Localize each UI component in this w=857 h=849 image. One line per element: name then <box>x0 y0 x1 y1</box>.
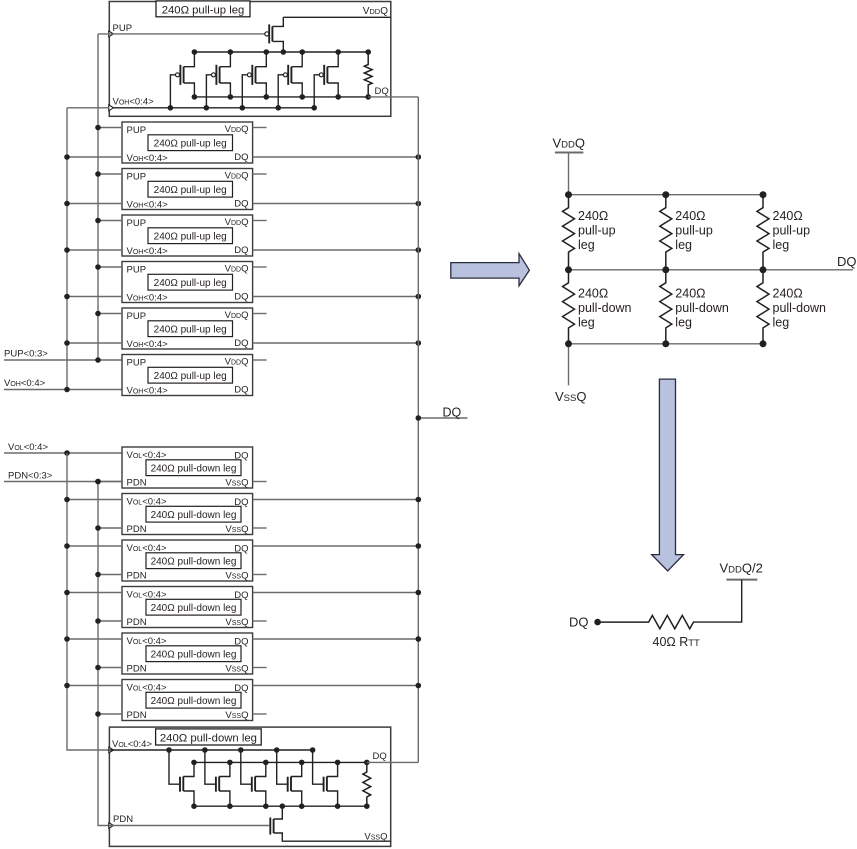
wire VSSQ stub U_PD5 <box>253 667 267 669</box>
resistor R_dn1 240 ohm pull-down leg <box>563 270 575 344</box>
svg-text:PUP: PUP <box>127 125 147 136</box>
wire PDN<0:3> input <box>4 481 122 483</box>
svg-text:VOL<0:4>: VOL<0:4> <box>127 450 167 461</box>
transistor MN1 NMOS leg <box>166 747 197 809</box>
block U_PD0 240-ohm pull-down leg (detail) outline <box>109 727 390 846</box>
value label R_dn3 <box>773 287 827 330</box>
wire DQ line U_PU5 <box>253 342 419 344</box>
svg-text:pull-up: pull-up <box>773 224 811 238</box>
svg-text:240Ω pull-down leg: 240Ω pull-down leg <box>151 464 237 475</box>
junction DQ rail col 1 <box>565 266 572 273</box>
junction DQ output <box>416 415 422 421</box>
wire VOL stub U_PD6 <box>67 685 122 687</box>
junction PDN bus U_PD1 <box>95 479 101 485</box>
block U_PU6 240-ohm pull-up leg <box>122 355 253 397</box>
wire source rail of U_PD0 <box>194 805 367 807</box>
pin VOL of U_PD0 <box>109 739 153 753</box>
svg-text:DQ: DQ <box>234 198 248 209</box>
block U_PD6 240-ohm pull-down leg <box>122 680 253 722</box>
transistor MP5 PMOS leg <box>311 49 341 110</box>
junction VDDQ rail col 2 <box>662 191 669 198</box>
junction DQ bus U_PD4 <box>416 590 422 596</box>
svg-text:240Ω: 240Ω <box>675 287 705 301</box>
junction VSSQ rail col 1 <box>565 340 572 347</box>
svg-text:DQ: DQ <box>443 406 462 420</box>
wire DQ exit of U_PU0 <box>368 96 418 98</box>
wire VOL stub U_PD5 <box>67 638 122 640</box>
svg-text:VOL<0:4>: VOL<0:4> <box>127 590 167 601</box>
wire DQ line U_PD6 <box>253 685 419 687</box>
wire VOL bus vertical <box>67 453 109 750</box>
svg-text:PDN: PDN <box>127 571 147 582</box>
junction PDN bus U_PD4 <box>95 618 101 624</box>
wire VOL stub U_PD4 <box>67 592 122 594</box>
svg-text:leg: leg <box>578 316 595 330</box>
wire VOH stub U_PU1 <box>67 156 122 158</box>
wire DQ line U_PD3 <box>253 545 419 547</box>
svg-text:40Ω RTT: 40Ω RTT <box>653 635 701 649</box>
junction PUP bus U_PU1 <box>95 125 101 131</box>
svg-text:DQ: DQ <box>234 291 248 302</box>
wire VSSQ stub U_PD6 <box>253 713 267 715</box>
wire PDN stub U_PD2 <box>98 527 122 529</box>
junction DQ bus U_PD2 <box>416 497 422 503</box>
svg-text:PUP: PUP <box>127 172 147 183</box>
svg-text:DQ: DQ <box>234 497 248 508</box>
wire DQ line U_PU2 <box>253 203 419 205</box>
svg-text:DQ: DQ <box>234 544 248 555</box>
block U_PD4 240-ohm pull-down leg <box>122 587 253 629</box>
wire DQ exit of U_PD0 <box>367 761 419 763</box>
block U_PD5 240-ohm pull-down leg <box>122 633 253 675</box>
power symbol VDDQ/2 <box>720 561 763 580</box>
svg-text:leg: leg <box>773 316 790 330</box>
transistor MN2 NMOS leg <box>202 747 233 809</box>
wire VSSQ stub U_PD4 <box>253 620 267 622</box>
resistor R_dn3 240 ohm pull-down leg <box>757 270 769 344</box>
junction DQ bus U_PD3 <box>416 543 422 549</box>
wire DQ line U_PU4 <box>253 296 419 298</box>
svg-text:240Ω pull-down leg: 240Ω pull-down leg <box>151 696 237 707</box>
wire PUP stub U_PU5 <box>98 313 122 315</box>
junction VSSQ rail col 3 <box>760 340 767 347</box>
svg-text:PUP: PUP <box>113 23 133 34</box>
pin PDN of U_PD0 <box>109 814 133 828</box>
wire DQ rail <box>569 269 854 271</box>
junction PUP bus U_PU2 <box>95 171 101 177</box>
wire VDDQ stub U_PU4 <box>253 266 267 268</box>
resistor R_up1 240 ohm pull-up leg <box>563 195 575 270</box>
junction VOH bus U_PU4 <box>64 294 70 300</box>
svg-text:PDN: PDN <box>113 814 133 825</box>
svg-text:DQ: DQ <box>234 590 248 601</box>
svg-text:PUP: PUP <box>127 265 147 276</box>
wire PUP bus vertical <box>97 34 99 360</box>
junction VOL bus U_PD6 <box>64 683 70 689</box>
junction VOL bus U_PD5 <box>64 636 70 642</box>
wire PDN stub U_PD1 <box>98 481 122 483</box>
junction DQ bus U_PU4 <box>416 294 422 300</box>
wire VOL gate rail of U_PD0 <box>109 749 312 751</box>
transistor MN4 NMOS leg <box>274 747 305 809</box>
svg-text:PUP: PUP <box>127 218 147 229</box>
svg-text:VDDQ/2: VDDQ/2 <box>720 561 763 576</box>
junction DQ bus U_PU5 <box>416 340 422 346</box>
svg-text:240Ω pull-up leg: 240Ω pull-up leg <box>154 139 227 150</box>
svg-text:PDN: PDN <box>127 617 147 628</box>
svg-text:VOL<0:4>: VOL<0:4> <box>127 636 167 647</box>
power symbol VDDQ <box>553 136 586 195</box>
svg-text:DQ: DQ <box>234 451 248 462</box>
value label R_up2 <box>675 209 713 252</box>
block U_PU0 240-ohm pull-up leg (detail) outline <box>109 2 391 117</box>
svg-text:240Ω pull-up leg: 240Ω pull-up leg <box>154 325 227 336</box>
svg-text:VOH<0:4>: VOH<0:4> <box>113 96 155 107</box>
value label R_up3 <box>773 209 811 252</box>
value label R_dn1 <box>578 287 632 330</box>
block U_PD1 240-ohm pull-down leg <box>122 447 253 489</box>
wire drain rail (DQ) of U_PU0 <box>194 96 368 98</box>
junction DQ bus U_PD6 <box>416 683 422 689</box>
wire VDDQ/2 to resistor <box>694 580 742 623</box>
wire PUP gate line <box>98 33 265 35</box>
junction PDN bus U_PD5 <box>95 665 101 671</box>
svg-text:240Ω pull-down leg: 240Ω pull-down leg <box>151 557 237 568</box>
label box 240-ohm pull-down leg <box>156 729 262 745</box>
junction VDDQ rail col 3 <box>760 191 767 198</box>
junction DQ bus U_PU3 <box>416 247 422 253</box>
block U_PU2 240-ohm pull-up leg <box>122 169 253 211</box>
wire VSSQ rail <box>569 343 764 345</box>
svg-text:VOH<0:4>: VOH<0:4> <box>127 246 169 257</box>
wire VOL stub U_PD2 <box>67 499 122 501</box>
svg-text:240Ω pull-up leg: 240Ω pull-up leg <box>154 185 227 196</box>
wire VSSQ stub U_PD1 <box>253 481 267 483</box>
wire PUP stub U_PU1 <box>98 127 122 129</box>
wire VDDQ stub U_PU6 <box>253 359 267 361</box>
wire PDN stub U_PD5 <box>98 667 122 669</box>
junction DQ bus U_PU2 <box>416 201 422 207</box>
wire DQ line U_PD5 <box>253 638 419 640</box>
svg-text:PUP<0:3>: PUP<0:3> <box>4 349 48 360</box>
wire VDDQ stub U_PU2 <box>253 173 267 175</box>
svg-text:240Ω: 240Ω <box>773 287 803 301</box>
resistor R_up2 240 ohm pull-up leg <box>660 195 672 270</box>
svg-text:240Ω pull-down leg: 240Ω pull-down leg <box>151 650 237 661</box>
wire PDN bus vertical <box>98 482 109 826</box>
svg-text:VOH<0:4>: VOH<0:4> <box>127 339 169 350</box>
svg-text:DQ: DQ <box>234 245 248 256</box>
wire PUP stub U_PU4 <box>98 266 122 268</box>
junction VOL bus U_PD2 <box>64 497 70 503</box>
wire DQ line U_PU1 <box>253 156 419 158</box>
svg-text:DQ: DQ <box>569 615 589 630</box>
junction VDDQ rail col 1 <box>565 191 572 198</box>
wire VDDQ stub U_PU1 <box>253 127 267 129</box>
svg-text:PDN<0:3>: PDN<0:3> <box>8 471 53 482</box>
svg-text:VOL<0:4>: VOL<0:4> <box>127 543 167 554</box>
junction PUP bus U_PU3 <box>95 218 101 224</box>
block U_PU5 240-ohm pull-up leg <box>122 308 253 350</box>
svg-text:leg: leg <box>675 238 692 252</box>
resistor R_PD0 240 ohm <box>363 760 371 809</box>
transistor MP1 PMOS leg <box>168 49 198 110</box>
wire DQ bus vertical <box>417 97 419 763</box>
wire PUP stub U_PU2 <box>98 173 122 175</box>
junction DQ rail col 3 <box>760 266 767 273</box>
junction PDN bus U_PD3 <box>95 572 101 578</box>
svg-text:leg: leg <box>773 238 790 252</box>
junction VOL<0:4> on bus <box>64 450 70 456</box>
wire PDN stub U_PD6 <box>98 713 122 715</box>
junction VOH bus U_PU1 <box>64 154 70 160</box>
wire drain rail (DQ) of U_PD0 <box>194 761 367 763</box>
svg-text:DQ: DQ <box>234 637 248 648</box>
wire VOH bus vertical <box>66 108 68 390</box>
junction VOH bus U_PU5 <box>64 340 70 346</box>
svg-text:leg: leg <box>675 316 692 330</box>
wire PDN gate line <box>109 825 269 827</box>
resistor R_dn2 240 ohm pull-down leg <box>660 270 672 344</box>
svg-text:PUP: PUP <box>127 311 147 322</box>
svg-text:VOL<0:4>: VOL<0:4> <box>127 683 167 694</box>
wire VOH stub U_PU2 <box>67 203 122 205</box>
wire VDDQ stub U_PU3 <box>253 220 267 222</box>
svg-text:240Ω: 240Ω <box>578 209 608 223</box>
wire VDDQ rail <box>569 194 764 196</box>
svg-text:pull-up: pull-up <box>578 224 616 238</box>
svg-text:DQ: DQ <box>234 683 248 694</box>
junction DQ bus U_PU1 <box>416 154 422 160</box>
resistor R_up3 240 ohm pull-up leg <box>757 195 769 270</box>
wire VOH stub U_PU3 <box>67 249 122 251</box>
svg-text:240Ω pull-down leg: 240Ω pull-down leg <box>151 603 237 614</box>
wire VOH gate bus inside U_PU0 <box>109 107 314 109</box>
junction PDN bus U_PD6 <box>95 711 101 717</box>
svg-text:240Ω pull-up leg: 240Ω pull-up leg <box>154 278 227 289</box>
block U_PU4 240-ohm pull-up leg <box>122 262 253 304</box>
wire DQ line U_PD2 <box>253 499 419 501</box>
wire DQ line U_PD4 <box>253 592 419 594</box>
node DQ terminal dot <box>594 619 601 626</box>
junction DQ rail col 2 <box>662 266 669 273</box>
junction VOL bus U_PD4 <box>64 590 70 596</box>
transistor MP4 PMOS leg <box>275 49 305 110</box>
wire VOH<0:4> input <box>4 389 122 391</box>
svg-text:240Ω pull-down leg: 240Ω pull-down leg <box>160 733 257 745</box>
svg-text:240Ω pull-up leg: 240Ω pull-up leg <box>162 5 245 17</box>
transistor MN3 NMOS leg <box>238 747 269 809</box>
wire DQ output stub <box>418 417 467 419</box>
svg-text:VOH<0:4>: VOH<0:4> <box>127 292 169 303</box>
value label R_dn2 <box>675 287 729 330</box>
arrow to equivalent circuit <box>652 379 684 571</box>
pin PUP of U_PU0 <box>109 23 132 37</box>
transistor MN5 NMOS leg <box>310 747 341 809</box>
svg-text:240Ω pull-up leg: 240Ω pull-up leg <box>154 371 227 382</box>
svg-text:VDDQ: VDDQ <box>363 6 389 17</box>
wire VOH stub U_PU5 <box>67 342 122 344</box>
block U_PD2 240-ohm pull-down leg <box>122 494 253 536</box>
junction PDN<0:3> on bus <box>95 479 101 485</box>
svg-text:PUP: PUP <box>127 358 147 369</box>
svg-text:240Ω pull-down leg: 240Ω pull-down leg <box>151 510 237 521</box>
transistor MP2 PMOS leg <box>204 49 234 110</box>
svg-text:VOL<0:4>: VOL<0:4> <box>8 442 48 453</box>
wire PUP stub U_PU3 <box>98 220 122 222</box>
junction PDN bus U_PD2 <box>95 525 101 531</box>
wire source rail of U_PU0 <box>194 51 368 53</box>
transistor MP3 PMOS leg <box>240 49 270 110</box>
wire VOH stub U_PU4 <box>67 296 122 298</box>
junction VOH bus U_PU3 <box>64 247 70 253</box>
svg-text:VOL<0:4>: VOL<0:4> <box>112 739 152 750</box>
svg-text:240Ω pull-up leg: 240Ω pull-up leg <box>154 232 227 243</box>
wire VOH entry to U_PU0 <box>67 107 109 109</box>
wire VDDQ stub U_PU5 <box>253 313 267 315</box>
wire PDN stub U_PD3 <box>98 574 122 576</box>
svg-text:DQ: DQ <box>375 86 389 97</box>
svg-text:PDN: PDN <box>127 524 147 535</box>
wire PUP<0:3> input <box>4 359 122 361</box>
wire VSSQ stub U_PD2 <box>253 527 267 529</box>
wire VDDQ rail of U_PU0 <box>283 16 391 18</box>
block U_PU3 240-ohm pull-up leg <box>122 215 253 257</box>
svg-text:VOH<0:4>: VOH<0:4> <box>4 378 46 389</box>
junction PUP bus U_PU4 <box>95 264 101 270</box>
arrow to simplified network <box>451 254 530 286</box>
junction VSSQ rail col 2 <box>662 340 669 347</box>
svg-text:PDN: PDN <box>127 710 147 721</box>
svg-text:DQ: DQ <box>373 751 387 762</box>
svg-text:pull-down: pull-down <box>675 301 729 315</box>
svg-text:PDN: PDN <box>127 478 147 489</box>
svg-text:pull-down: pull-down <box>773 301 827 315</box>
svg-text:240Ω: 240Ω <box>675 209 705 223</box>
label box 240-ohm pull-up leg <box>156 1 250 17</box>
junction VOH bus U_PU2 <box>64 201 70 207</box>
junction DQ bus U_PD5 <box>416 636 422 642</box>
pin VOH of U_PU0 <box>109 96 154 110</box>
power symbol VSSQ <box>555 344 586 404</box>
svg-text:DQ: DQ <box>234 384 248 395</box>
transistor MP0 enable PMOS <box>265 17 286 55</box>
svg-text:VOL<0:4>: VOL<0:4> <box>127 497 167 508</box>
svg-text:VOH<0:4>: VOH<0:4> <box>127 199 169 210</box>
wire VOL<0:4> input <box>4 452 122 454</box>
wire VSSQ stub U_PD3 <box>253 574 267 576</box>
svg-text:VOH<0:4>: VOH<0:4> <box>127 385 169 396</box>
junction VOH<0:4> on bus <box>64 387 70 393</box>
block U_PD3 240-ohm pull-down leg <box>122 540 253 582</box>
junction PUP<0:3> on bus <box>95 357 101 363</box>
block U_PU1 240-ohm pull-up leg <box>122 122 253 164</box>
junction VOL bus U_PD3 <box>64 543 70 549</box>
wire VOL stub U_PD3 <box>67 545 122 547</box>
svg-text:leg: leg <box>578 238 595 252</box>
svg-text:DQ: DQ <box>234 152 248 163</box>
resistor RTT 40 ohm <box>598 615 694 628</box>
wire DQ line U_PU3 <box>253 249 419 251</box>
resistor R_PU0 240 ohm <box>364 49 372 99</box>
svg-text:pull-down: pull-down <box>578 301 632 315</box>
svg-text:pull-up: pull-up <box>675 224 713 238</box>
svg-text:DQ: DQ <box>837 254 857 269</box>
junction PUP bus U_PU5 <box>95 311 101 317</box>
svg-text:VOH<0:4>: VOH<0:4> <box>127 153 169 164</box>
wire PDN stub U_PD4 <box>98 620 122 622</box>
svg-text:PDN: PDN <box>127 664 147 675</box>
value label R_up1 <box>578 209 616 252</box>
svg-text:240Ω: 240Ω <box>773 209 803 223</box>
svg-text:240Ω: 240Ω <box>578 287 608 301</box>
svg-text:DQ: DQ <box>234 338 248 349</box>
transistor MN0 enable NMOS <box>270 803 390 841</box>
